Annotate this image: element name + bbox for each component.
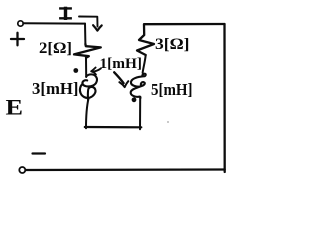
arrow to left coil (mutual) — [91, 68, 101, 75]
resistor 3[Ω] zigzag — [137, 25, 154, 56]
svg-text:5[mH]: 5[mH] — [151, 80, 193, 99]
svg-text:2[Ω]: 2[Ω] — [39, 40, 72, 57]
wire left vertical (top) — [84, 24, 86, 44]
svg-text:3[Ω]: 3[Ω] — [155, 36, 190, 53]
wire left vertical (middle) — [85, 58, 87, 77]
wire inner bottom — [85, 126, 142, 129]
current direction arrow — [79, 17, 102, 31]
label 3[mH] — [32, 79, 79, 98]
dot (polarity) right coil — [132, 97, 137, 102]
terminal + (top-left open circle) — [18, 21, 23, 26]
terminal − (bottom-left open circle) — [19, 167, 25, 173]
wire right vertical (coil to resistor) — [143, 55, 146, 73]
label 2[Ω] — [39, 40, 72, 57]
label E (source) — [6, 95, 24, 120]
stray mark — [167, 121, 169, 123]
wire top right horizontal — [144, 23, 225, 26]
wire bottom horizontal — [26, 168, 225, 171]
dot (polarity) left coil — [73, 68, 78, 73]
wire right inner vertical — [139, 97, 141, 129]
label 5[mH] — [151, 80, 193, 99]
inductor 3[mH] coil — [80, 74, 97, 100]
inductor 5[mH] coil — [131, 74, 146, 98]
svg-text:1[mH]: 1[mH] — [100, 56, 143, 72]
label 1[mH] mutual inductance — [100, 56, 143, 72]
resistor 2[Ω] zigzag — [74, 44, 101, 58]
wire top-left horizontal — [23, 22, 85, 24]
label 3[Ω] — [155, 36, 190, 53]
svg-text:E: E — [6, 95, 24, 120]
wire left vertical (bottom) — [86, 99, 89, 129]
wire right vertical — [223, 24, 225, 172]
label I (current) — [60, 8, 70, 18]
svg-text:3[mH]: 3[mH] — [32, 79, 79, 98]
plus sign — [11, 33, 24, 46]
arrow to right coil (mutual) — [114, 72, 128, 87]
minus sign — [33, 152, 46, 154]
